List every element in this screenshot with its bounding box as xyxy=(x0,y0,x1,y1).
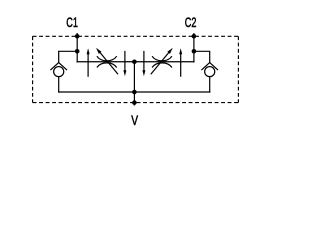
svg-text:C1: C1 xyxy=(66,14,78,31)
throttle valve TH1 bottom arc xyxy=(97,63,117,68)
throttle valve TH1 top arc xyxy=(97,56,117,61)
wire: bottom line xyxy=(58,91,210,93)
check valve CV2 ball xyxy=(205,67,215,77)
check valve CV1 ball xyxy=(54,67,64,77)
junction dot C1 at border xyxy=(75,34,80,39)
throttle valve TH2 top arc xyxy=(152,56,172,61)
flow arrow up (left throttle) xyxy=(87,48,90,77)
junction dot center flow line xyxy=(132,59,137,64)
svg-text:V: V xyxy=(131,113,139,129)
throttle valve TH2 adjust arrow xyxy=(151,48,173,74)
wire: center vertical to V xyxy=(133,62,135,106)
wire: CV2 to bottom line xyxy=(209,77,211,93)
dashed valve body enclosure xyxy=(33,36,239,102)
wire: right branch to check valve CV2 xyxy=(194,51,210,62)
flow arrow down (left throttle) xyxy=(123,51,126,76)
flow arrow up (right throttle) xyxy=(179,48,182,77)
junction dot C2 at border xyxy=(192,34,197,39)
throttle valve TH2 bottom arc xyxy=(152,63,172,68)
check valve CV1 seat xyxy=(50,63,67,71)
wire: CV1 to bottom line xyxy=(58,77,60,93)
junction dot center bottom line xyxy=(132,90,137,95)
wire: C2 port line xyxy=(193,33,195,63)
flow arrow down (right throttle) xyxy=(142,51,145,76)
check valve CV2 seat xyxy=(201,63,218,71)
junction dot C2 branch xyxy=(192,49,197,54)
wire: throttle flow line xyxy=(77,61,195,63)
wire: left branch to check valve CV1 xyxy=(59,51,77,62)
throttle valve TH1 adjust arrow xyxy=(96,48,118,74)
wire: C1 port line xyxy=(76,33,78,63)
junction dot V at border xyxy=(132,100,137,105)
junction dot C1 branch xyxy=(75,49,80,54)
svg-text:C2: C2 xyxy=(185,14,197,31)
